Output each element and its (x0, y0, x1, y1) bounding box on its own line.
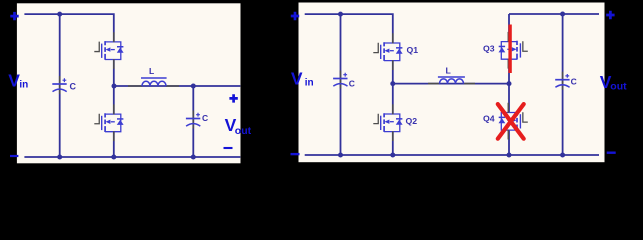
wire: left leg between Q1 Q2 (392, 61, 394, 114)
capacitor C output (186, 111, 200, 129)
svg-text:Q4: Q4 (483, 114, 495, 124)
wire: inductor output wire (114, 85, 241, 87)
wire: inductor lead segments (128, 85, 179, 87)
left schematic panel (17, 3, 241, 163)
wire: Q3 leg upper (508, 14, 510, 42)
transistor upper MOSFET (94, 32, 123, 69)
node: bottom rail leg junction (111, 155, 116, 160)
wire: bottom rail (305, 154, 599, 156)
wire: left leg between MOSFETs (113, 60, 115, 115)
svg-text:Q1: Q1 (407, 45, 419, 55)
node: rail to input cap junction (338, 12, 343, 17)
node: bottom rail output cap junction (560, 153, 565, 158)
node: output cap top junction (191, 84, 196, 89)
label - output terminal (607, 151, 616, 153)
wire: bottom rail (24, 156, 240, 158)
transistor Q4 (mirrored) (499, 103, 528, 140)
red short annotation on Q3 (508, 25, 511, 74)
wire: output capacitor branch (192, 86, 194, 157)
svg-text:in: in (305, 78, 314, 89)
node: top right rail cap junction (560, 12, 565, 17)
node: switch midpoint junction (112, 84, 117, 89)
label - input terminal (10, 155, 18, 157)
node: bottom rail left leg junction (390, 153, 395, 158)
wire: Q4 leg upper (508, 84, 510, 113)
label + output terminal (229, 94, 237, 102)
wire: inductor lead segments (428, 83, 475, 85)
svg-text:V: V (8, 71, 20, 91)
wire: output capacitor branch (562, 14, 564, 155)
svg-text:C: C (571, 76, 577, 86)
svg-text:out: out (610, 80, 627, 92)
red X annotation on Q4 (498, 104, 524, 139)
node: bottom rail cap junction (57, 155, 62, 160)
svg-text:C: C (70, 82, 77, 92)
svg-text:L: L (446, 65, 452, 75)
wire: Q2 to bottom rail (392, 132, 394, 155)
label + input terminal (291, 12, 299, 20)
svg-text:out: out (235, 125, 252, 137)
capacitor C input (333, 71, 347, 89)
svg-text:L: L (149, 66, 154, 76)
wire: inductor middle wire (393, 83, 509, 85)
capacitor C input (52, 76, 66, 94)
wire: Q3 to mid junction (508, 59, 510, 83)
transistor Q1 (373, 33, 402, 70)
node: Q1 Q2 midpoint junction (390, 81, 395, 86)
wire: top input rail (24, 14, 113, 42)
node: bottom rail right leg junction (507, 153, 512, 158)
inductor L (438, 76, 465, 78)
inductor L (141, 77, 167, 79)
node: rail to input cap junction (57, 12, 62, 17)
wire: top right rail (509, 13, 599, 15)
label - input terminal (291, 153, 300, 155)
svg-text:Q2: Q2 (406, 116, 418, 126)
wire: input capacitor branch (340, 14, 342, 155)
svg-text:C: C (349, 79, 355, 89)
svg-text:V: V (291, 69, 303, 89)
svg-text:in: in (19, 80, 28, 91)
capacitor C output (555, 72, 569, 90)
transistor Q2 (373, 104, 402, 141)
wire: Q4 to bottom rail (508, 130, 510, 155)
transistor lower MOSFET (94, 104, 123, 141)
node: bottom rail output cap junction (191, 155, 196, 160)
label + input terminal (10, 12, 18, 20)
svg-text:C: C (202, 113, 208, 123)
node: bottom rail input cap junction (338, 153, 343, 158)
right schematic panel (299, 3, 605, 163)
label - output terminal (224, 147, 233, 149)
node: Q3 Q4 midpoint junction (507, 81, 512, 86)
wire: top input rail (305, 14, 393, 43)
wire: leg bottom to rail (113, 132, 115, 157)
label + output terminal (606, 11, 614, 19)
svg-text:Q3: Q3 (483, 44, 495, 54)
wire: input capacitor branch (59, 14, 61, 157)
transistor Q3 (mirrored) (499, 32, 528, 69)
